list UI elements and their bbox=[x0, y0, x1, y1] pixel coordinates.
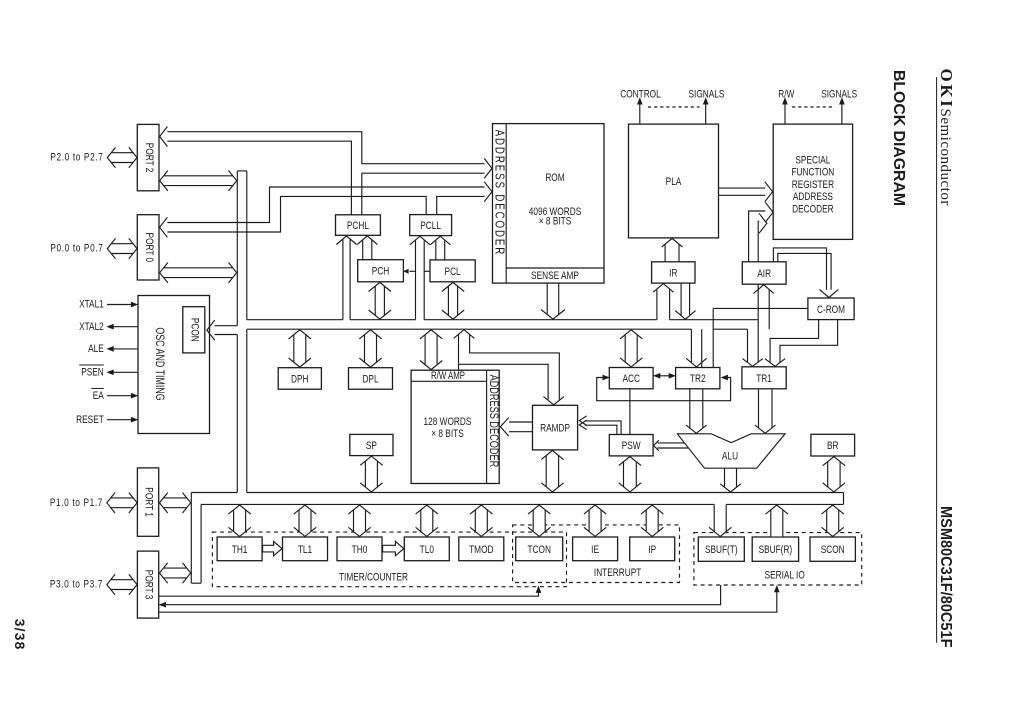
svg-text:PCH: PCH bbox=[372, 266, 389, 279]
label PSEN bbox=[79, 365, 104, 379]
bus channel AIR to C-ROM bbox=[773, 248, 838, 298]
box C-ROM bbox=[808, 298, 854, 320]
svg-text:TH1: TH1 bbox=[232, 544, 248, 557]
bus V1 top closure bbox=[237, 170, 247, 172]
arrow band B to TL1 bbox=[294, 505, 316, 536]
label SIGNALS (PLA) bbox=[689, 88, 725, 101]
label ALE bbox=[88, 343, 104, 356]
svg-text:× 8 BITS: × 8 BITS bbox=[539, 215, 572, 228]
bus band A bottom border bbox=[247, 328, 748, 330]
arrow PORT 3 to bus bbox=[160, 563, 191, 583]
arrowhead B3 into ROM address decoder bbox=[484, 182, 492, 202]
arrow band B down into SBUF(T) bbox=[709, 504, 731, 536]
box PORT 2 bbox=[137, 124, 159, 190]
svg-text:DPL: DPL bbox=[362, 373, 379, 386]
svg-text:RESET: RESET bbox=[76, 414, 104, 427]
box TH0 bbox=[337, 537, 382, 561]
wire PCL to PCH bbox=[404, 269, 430, 273]
bus channel ALU to PSW bbox=[654, 440, 689, 450]
arrow PSW to band B bbox=[619, 457, 641, 492]
box TH1 bbox=[217, 537, 262, 561]
bus V1 vertical channel left border bbox=[236, 171, 238, 493]
wire XTAL1 to OSC bbox=[107, 302, 137, 307]
bus channel band A to RAMDP via R/W AMP bbox=[454, 330, 564, 405]
bus B1 top border (PORT2 to ROM address decoder) bbox=[167, 132, 484, 164]
svg-text:REGISTER: REGISTER bbox=[792, 179, 834, 192]
wire signals arrow (SFR) bbox=[840, 98, 845, 124]
wire control signal arrow right (PLA) bbox=[703, 98, 708, 124]
label XTAL2 bbox=[79, 321, 104, 334]
wire EA to OSC bbox=[107, 393, 137, 398]
group INTERRUPT dashed box bbox=[513, 525, 680, 583]
svg-text:SIGNALS: SIGNALS bbox=[821, 88, 857, 101]
svg-text:TR1: TR1 bbox=[756, 373, 772, 386]
svg-text:P3.0 to P3.7: P3.0 to P3.7 bbox=[50, 579, 103, 592]
arrow PLA to SFR decoder bbox=[719, 182, 773, 202]
arrow band B to IP bbox=[641, 505, 663, 536]
svg-text:R/W AMP: R/W AMP bbox=[431, 370, 465, 381]
arrow PCH to band A bbox=[369, 282, 391, 319]
wire PSEN from OSC bbox=[107, 370, 137, 375]
box SBUF(R) bbox=[752, 537, 798, 561]
svg-text:SPECIAL: SPECIAL bbox=[795, 154, 830, 167]
box DPH bbox=[278, 368, 321, 390]
svg-text:SBUF(R): SBUF(R) bbox=[759, 544, 793, 557]
box TL0 bbox=[404, 537, 449, 561]
box PORT 3 bbox=[137, 551, 158, 618]
svg-text:PORT 1: PORT 1 bbox=[142, 487, 155, 517]
svg-text:C-ROM: C-ROM bbox=[817, 304, 845, 317]
label SIGNALS (SFR) bbox=[821, 88, 857, 101]
bus B3 decoder segment bottom border bbox=[437, 196, 485, 214]
label SERIAL IO bbox=[765, 570, 805, 583]
bus channel band A down to TR1 left bbox=[742, 329, 762, 366]
svg-text:IE: IE bbox=[591, 544, 599, 557]
svg-text:P0.0 to P0.7: P0.0 to P0.7 bbox=[50, 243, 103, 256]
svg-text:IR: IR bbox=[669, 267, 677, 280]
label page 3/38 bbox=[12, 619, 27, 651]
svg-text:BLOCK DIAGRAM: BLOCK DIAGRAM bbox=[890, 70, 907, 206]
svg-text:CONTROL: CONTROL bbox=[620, 88, 661, 101]
svg-text:SENSE AMP: SENSE AMP bbox=[531, 270, 579, 283]
bus channel band A up into IR bbox=[653, 284, 673, 320]
svg-text:ADDRESS: ADDRESS bbox=[793, 191, 833, 204]
svg-text:SBUF(T): SBUF(T) bbox=[705, 544, 738, 557]
svg-text:BR: BR bbox=[827, 440, 839, 453]
arrow band B to TCON bbox=[528, 505, 550, 536]
arrow P2.0-P2.7 to PORT 2 bbox=[107, 147, 137, 167]
svg-text:PCHL: PCHL bbox=[347, 220, 370, 233]
label EA bbox=[91, 388, 104, 402]
bus channel TR2 to ALU bbox=[686, 389, 707, 434]
arrow TH0 to TL0 bbox=[383, 541, 404, 555]
label OKI Semiconductor bbox=[937, 69, 956, 206]
arrow P1.0-P1.7 to PORT 1 bbox=[107, 493, 137, 513]
box AIR bbox=[742, 262, 786, 284]
svg-text:FUNCTION: FUNCTION bbox=[792, 167, 835, 180]
bus channel SENSE AMP down to band A bbox=[541, 283, 565, 319]
svg-text:EA: EA bbox=[93, 390, 104, 403]
svg-text:ALU: ALU bbox=[722, 450, 738, 463]
wire ACC-TR2 exchange bbox=[654, 373, 675, 378]
label TIMER/COUNTER bbox=[339, 572, 408, 585]
box PLA bbox=[629, 124, 719, 238]
svg-text:PSEN: PSEN bbox=[81, 366, 104, 379]
label BLOCK DIAGRAM bbox=[890, 70, 907, 206]
bus channel TR1 to ALU bbox=[755, 389, 776, 434]
arrow band B to TL0 bbox=[416, 505, 438, 536]
label ROM bbox=[545, 172, 564, 185]
svg-text:TH0: TH0 bbox=[352, 544, 368, 557]
bus channel C-ROM down to TR1 right bbox=[765, 320, 838, 367]
bus B3 bottom border (PORT0 branch to PCLL) bbox=[167, 196, 426, 232]
arrowhead B1 into PORT 2 bbox=[160, 127, 168, 147]
svg-text:SERIAL IO: SERIAL IO bbox=[765, 570, 805, 583]
label x 8 BITS (RAM) bbox=[431, 428, 464, 441]
group TIMER/COUNTER dashed box bbox=[212, 532, 566, 587]
svg-text:ACC: ACC bbox=[622, 373, 639, 386]
svg-text:ADDRESS DECODER: ADDRESS DECODER bbox=[492, 130, 507, 257]
wire AIR to SFR decoder 1 bbox=[749, 202, 773, 261]
box TL1 bbox=[283, 537, 328, 561]
svg-text:TCON: TCON bbox=[527, 544, 550, 557]
wire dashed control range (PLA) bbox=[648, 106, 700, 108]
arrow SBUF(R) up to band B bbox=[766, 505, 788, 537]
box PORT 1 bbox=[137, 468, 158, 536]
box SPECIAL FUNCTION REGISTER ADDRESS DECODER bbox=[773, 124, 852, 239]
svg-text:INTERRUPT: INTERRUPT bbox=[594, 567, 641, 580]
arrow P0.0-P0.7 to PORT 0 bbox=[107, 238, 137, 258]
box TR2 bbox=[676, 368, 720, 389]
bus channel band A up into PCHL bbox=[336, 236, 356, 320]
svg-text:R/W: R/W bbox=[778, 88, 795, 101]
bus channel IR up into PLA bbox=[662, 238, 683, 261]
wire ACC to PSW bbox=[629, 389, 631, 435]
wire SBUF(T) to PORT 3 bbox=[160, 585, 721, 607]
bus V1 vertical channel right border bbox=[246, 171, 248, 493]
bus B3 top border (PORT0 to ROM address decoder) bbox=[167, 187, 484, 223]
bus channel band A up into AIR bbox=[754, 285, 774, 329]
label CONTROL bbox=[620, 88, 661, 101]
box PORT 0 bbox=[137, 215, 159, 280]
label MSM80C31F/80C51F bbox=[937, 506, 955, 647]
svg-text:ROM: ROM bbox=[545, 172, 564, 185]
arrow PORT0-V1 bbox=[160, 263, 237, 283]
arrow band B to TH1 bbox=[228, 505, 250, 536]
box SP bbox=[350, 434, 393, 455]
svg-text:RAMDP: RAMDP bbox=[540, 423, 570, 436]
label ADDRESS DECODER (ROM) bbox=[492, 130, 507, 257]
label SPECIAL FUNCTION REGISTER ADDRESS DECODER bbox=[792, 154, 835, 215]
arrow PCL to band A bbox=[442, 282, 464, 319]
svg-text:IP: IP bbox=[648, 544, 656, 557]
box PSW bbox=[609, 435, 653, 456]
box TMOD bbox=[459, 537, 504, 561]
box OSC AND TIMING bbox=[138, 296, 210, 434]
svg-text:SP: SP bbox=[366, 440, 377, 453]
arrow DPL to band A bbox=[359, 330, 381, 367]
label ADDRESS DECODER (RAM) bbox=[486, 375, 500, 468]
wire R/W arrow (SFR) bbox=[783, 98, 788, 124]
label P3.0 to P3.7 bbox=[50, 579, 103, 592]
label SENSE AMP bbox=[531, 270, 579, 283]
label 128 WORDS bbox=[424, 416, 472, 429]
box IP bbox=[630, 537, 675, 561]
bus channel ALU down to band B bbox=[720, 468, 741, 492]
bus channel PSW to RAMDP bbox=[579, 416, 621, 435]
arrow ACC to band A bbox=[620, 330, 642, 367]
box PCLL bbox=[410, 215, 452, 236]
wire ALE from OSC bbox=[107, 347, 137, 352]
arrow BR to band B bbox=[823, 457, 845, 492]
svg-text:Semiconductor: Semiconductor bbox=[937, 109, 953, 206]
bus channel PCH up into PCHL bbox=[357, 236, 377, 260]
wire C-ROM to TR2 and band A junction bbox=[713, 284, 808, 367]
svg-text:PORT 2: PORT 2 bbox=[142, 143, 155, 173]
arrow PORT 1 to bus bbox=[160, 493, 191, 513]
box PCHL bbox=[336, 215, 381, 236]
svg-text:PCON: PCON bbox=[188, 318, 201, 342]
box TCON bbox=[516, 537, 563, 561]
bus band A top border bbox=[247, 319, 758, 321]
svg-text:SIGNALS: SIGNALS bbox=[689, 88, 725, 101]
label R/W AMP bbox=[431, 370, 465, 381]
bus band B left channel down to ports bbox=[191, 493, 201, 584]
wire ACC TR2 feedback loop bbox=[597, 375, 731, 401]
svg-text:AIR: AIR bbox=[757, 268, 771, 281]
svg-text:PSW: PSW bbox=[622, 440, 641, 453]
svg-text:OSC AND TIMING: OSC AND TIMING bbox=[152, 327, 166, 400]
box PCL bbox=[430, 260, 475, 282]
arrow band B to TMOD bbox=[470, 505, 492, 536]
label 4096 WORDS bbox=[529, 206, 582, 219]
group SERIAL IO dashed box bbox=[694, 533, 862, 585]
arrow RAMDP to RAM address decoder bbox=[500, 418, 532, 437]
arrow band A to R/W AMP bbox=[420, 330, 442, 370]
arrow SP to band B bbox=[360, 456, 382, 492]
svg-text:TL0: TL0 bbox=[420, 544, 435, 557]
arrow band B to SCON bbox=[822, 505, 844, 536]
arrow band B to IE bbox=[584, 505, 606, 536]
label RESET bbox=[76, 414, 104, 427]
svg-text:PORT 3: PORT 3 bbox=[142, 570, 155, 600]
box RAMDP bbox=[533, 405, 578, 450]
box TR1 bbox=[742, 367, 786, 389]
svg-text:XTAL2: XTAL2 bbox=[79, 321, 104, 334]
wire dashed R/W range (SFR) bbox=[792, 106, 835, 108]
arrow band B to TH0 bbox=[348, 505, 370, 536]
svg-text:PLA: PLA bbox=[666, 176, 682, 189]
label OSC AND TIMING bbox=[152, 327, 166, 400]
label x 8 BITS (ROM) bbox=[539, 215, 572, 228]
arrow bus to PCON bbox=[207, 320, 237, 340]
wire AIR to SFR decoder 2 bbox=[758, 213, 767, 261]
box ROM with address decoder and sense amp bbox=[493, 124, 605, 284]
svg-text:ALE: ALE bbox=[88, 343, 104, 356]
label P2.0 to P2.7 bbox=[50, 152, 103, 165]
svg-text:TMOD: TMOD bbox=[469, 544, 493, 557]
wire RESET to OSC bbox=[107, 417, 137, 422]
svg-text:DPH: DPH bbox=[291, 373, 308, 386]
svg-text:128 WORDS: 128 WORDS bbox=[424, 416, 472, 429]
label XTAL1 bbox=[79, 299, 104, 312]
alu ALU bbox=[677, 434, 785, 468]
rule right margin bbox=[936, 77, 938, 643]
box SBUF(T) bbox=[698, 537, 744, 561]
bus channel band A up into PCLL bbox=[410, 236, 430, 320]
bus channel IR down to band A bbox=[675, 283, 695, 319]
arrow P3.0-P3.7 to PORT 3 bbox=[107, 574, 137, 594]
svg-text:OKI: OKI bbox=[937, 69, 956, 110]
label INTERRUPT bbox=[594, 567, 641, 580]
box IE bbox=[573, 537, 618, 561]
label P0.0 to P0.7 bbox=[50, 243, 103, 256]
svg-text:TL1: TL1 bbox=[298, 544, 312, 557]
arrowhead B3 into PORT 0 bbox=[160, 217, 168, 237]
box DPL bbox=[349, 368, 393, 390]
svg-text:ADDRESS DECODER: ADDRESS DECODER bbox=[486, 375, 500, 468]
svg-text:XTAL1: XTAL1 bbox=[79, 299, 104, 312]
svg-text:3/38: 3/38 bbox=[12, 619, 27, 651]
svg-text:TR2: TR2 bbox=[690, 373, 706, 386]
label P1.0 to P1.7 bbox=[50, 497, 103, 510]
bus B1 inner border (decoder branch to PCHL) bbox=[362, 173, 485, 215]
arrowhead B1 into ROM address decoder bbox=[484, 158, 492, 178]
box ACC bbox=[609, 368, 653, 389]
svg-text:DECODER: DECODER bbox=[792, 203, 833, 216]
box IR bbox=[652, 262, 695, 283]
svg-text:TIMER/COUNTER: TIMER/COUNTER bbox=[339, 572, 408, 585]
svg-text:PCL: PCL bbox=[445, 266, 462, 279]
arrow DPH to band A bbox=[289, 330, 311, 367]
wire PORT 3 to SBUF(R) bbox=[159, 586, 780, 612]
arrow RAMDP to band B bbox=[541, 451, 563, 492]
bus band B top border bbox=[191, 492, 843, 494]
wire XTAL2 from OSC bbox=[107, 324, 137, 329]
svg-text:PORT 0: PORT 0 bbox=[142, 233, 155, 263]
svg-text:MSM80C31F/80C51F: MSM80C31F/80C51F bbox=[937, 506, 955, 647]
wire control signal arrow left (PLA) bbox=[637, 98, 642, 124]
arrowhead band A and C-ROM into TR2 bbox=[686, 329, 707, 367]
bus band B bottom border bbox=[201, 503, 843, 505]
arrow TH1 to TL1 bbox=[263, 541, 282, 555]
box SCON bbox=[810, 537, 855, 561]
svg-text:P1.0 to P1.7: P1.0 to P1.7 bbox=[50, 497, 103, 510]
wire PORT 3 to TCON bbox=[159, 586, 541, 596]
bus band B right closure bbox=[843, 493, 845, 505]
bus B1 bottom border (PORT2 down to PCHL) bbox=[167, 141, 351, 215]
svg-text:SCON: SCON bbox=[821, 544, 845, 557]
arrow PORT2-V1 bbox=[160, 171, 237, 191]
box RAM with R/W AMP and address decoder bbox=[411, 370, 499, 483]
svg-text:× 8 BITS: × 8 BITS bbox=[431, 428, 464, 441]
svg-text:P2.0 to P2.7: P2.0 to P2.7 bbox=[50, 152, 103, 165]
box PCON bbox=[183, 307, 205, 353]
svg-text:PCLL: PCLL bbox=[420, 220, 441, 233]
box PCH bbox=[358, 260, 404, 282]
label R/W bbox=[778, 88, 795, 101]
wire TR2 feed divider bbox=[701, 329, 703, 367]
box BR bbox=[811, 434, 855, 456]
bus channel PCL up into PCLL bbox=[430, 236, 450, 260]
